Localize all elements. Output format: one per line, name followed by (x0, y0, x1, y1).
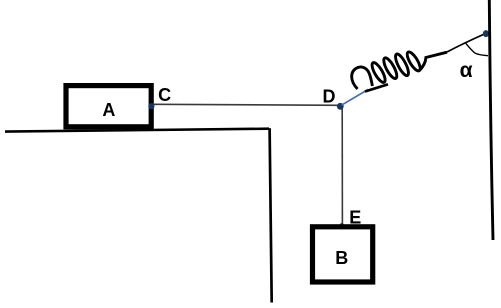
node D (337, 103, 344, 110)
node at wall (483, 30, 489, 37)
svg-text:C: C (158, 85, 171, 105)
node C (148, 103, 154, 109)
wire spring to wall (447, 34, 486, 53)
svg-text:α: α (460, 59, 473, 82)
svg-text:D: D (323, 87, 336, 107)
svg-text:B: B (335, 248, 348, 268)
spring tail (365, 84, 388, 91)
block A (66, 86, 151, 127)
angle arc (466, 43, 488, 55)
block B (313, 227, 373, 282)
table edge vertical (270, 128, 272, 302)
wire D to spring (blue) (342, 90, 369, 106)
wall (489, 0, 493, 240)
svg-text:A: A (102, 100, 115, 120)
wire CD (152, 104, 340, 105)
spring coil (352, 50, 447, 89)
node E (340, 223, 344, 227)
table surface (5, 129, 269, 132)
wire DE vertical (341, 106, 343, 226)
